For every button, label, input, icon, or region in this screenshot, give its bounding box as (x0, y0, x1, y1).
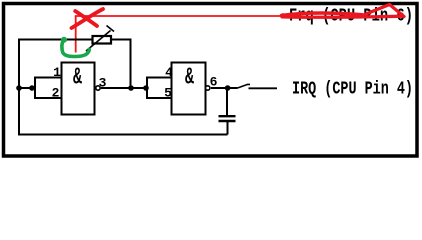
resistor R1 (trimmer) body (93, 36, 112, 44)
wire pin4 stub (146, 77, 172, 79)
wire riser from R1 corner down to node3 (130, 39, 132, 89)
U1 output bubble pin 3 (96, 86, 100, 90)
border frame (4, 4, 418, 157)
wire switch to IRQ label (249, 87, 278, 89)
wire node3 to U2 inputs (101, 87, 147, 89)
U2 output bubble pin 6 (206, 86, 210, 90)
wire pin6 to switch (211, 87, 238, 89)
node junction on left wire (16, 85, 22, 91)
annotation red scribble over Frq stroke 2 (lower wave through Pin 6) (282, 16, 403, 17)
annotation red X stroke 1 (72, 9, 104, 28)
node junction at U1 connector (29, 85, 35, 91)
annotation green check stroke (62, 41, 89, 57)
node junction at C1 tap (225, 85, 231, 91)
svg-text:4: 4 (165, 65, 173, 80)
op-amp U2 NAND gate body (172, 63, 206, 115)
svg-text:5: 5 (164, 86, 172, 101)
annotation green check start blob (61, 37, 67, 43)
wire left vertical (18, 39, 20, 136)
wire C1 bottom lead (227, 122, 229, 135)
resistor R1 adjust arrow diagonal (86, 31, 111, 52)
capacitor C1 top plate (219, 115, 236, 117)
wire red net Frq: horizontal run to label (75, 15, 286, 17)
wire bottom return (18, 134, 228, 136)
wire pin5 stub (146, 97, 172, 99)
svg-text:1: 1 (53, 65, 61, 80)
op-amp U1 NAND gate body (62, 63, 95, 115)
wire R1 right to riser corner (111, 39, 131, 41)
wire pin1 stub (34, 77, 62, 79)
annotation red X stroke 2 (75, 11, 97, 26)
wire red net Frq: vertical tap (75, 16, 77, 53)
annotation red scribble peak (361, 5, 404, 17)
wire U1 input connector vertical (34, 78, 36, 99)
node junction at U2 connector (143, 85, 149, 91)
wire U1 input feed (19, 87, 35, 89)
wire U2 input connector vertical (146, 78, 148, 99)
capacitor C1 bottom plate (219, 120, 236, 122)
svg-text:IRQ (CPU Pin 4): IRQ (CPU Pin 4) (292, 78, 413, 99)
switch S1 arm (238, 84, 251, 88)
svg-text:&: & (73, 63, 82, 91)
resistor R1 adjust bar (107, 26, 115, 32)
wire C1 top lead (226, 88, 228, 116)
svg-text:2: 2 (52, 86, 60, 101)
wire top (left corner to R1) (19, 39, 92, 41)
wire pin2 stub (34, 97, 62, 99)
node junction riser/node3 (128, 85, 134, 91)
annotation red scribble over Frq stroke 1 (upper wave) (282, 13, 363, 15)
svg-text:&: & (185, 63, 194, 91)
annotation red scribble start blob (280, 13, 285, 18)
